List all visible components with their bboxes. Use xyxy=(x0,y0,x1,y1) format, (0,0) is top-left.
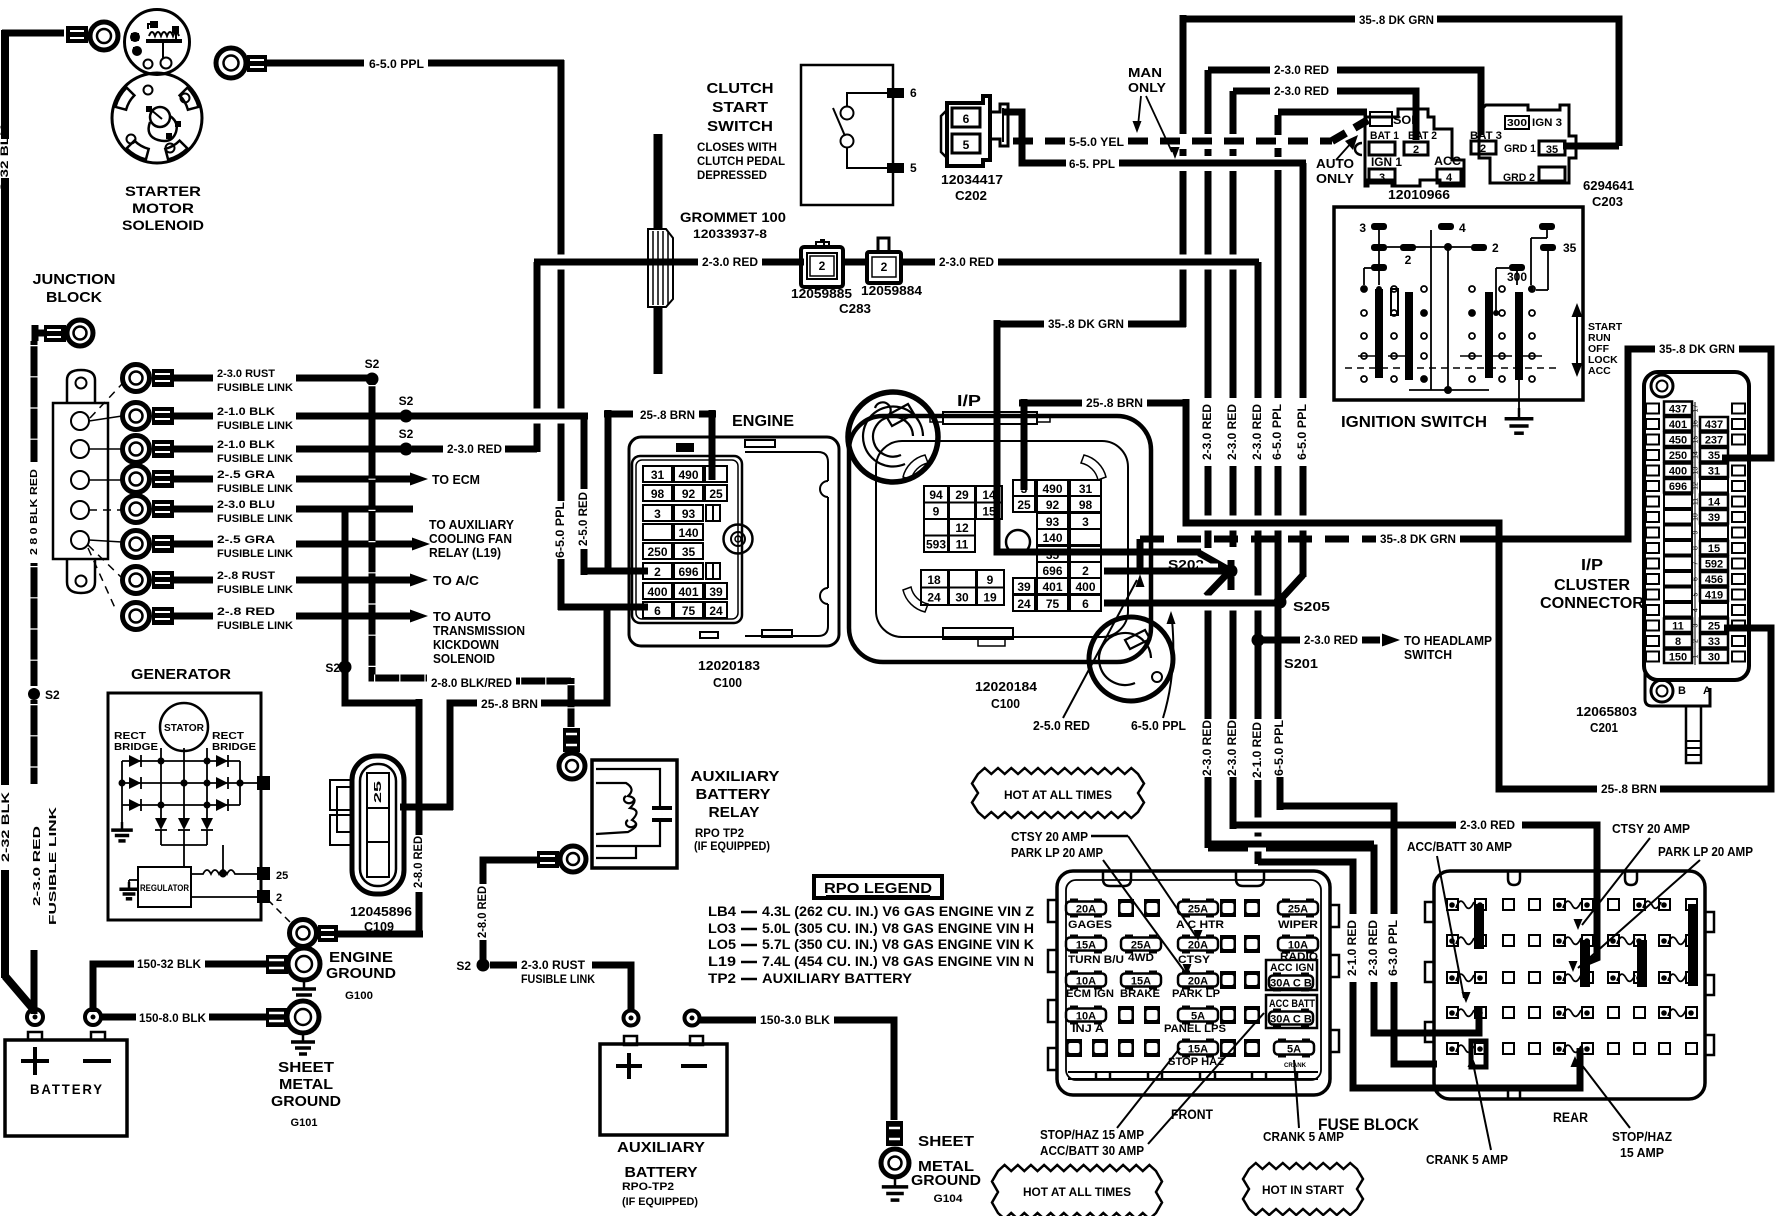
svg-text:593: 593 xyxy=(926,538,946,552)
svg-text:BRIDGE: BRIDGE xyxy=(114,741,158,753)
svg-text:419: 419 xyxy=(1705,590,1723,602)
svg-text:GRD 2: GRD 2 xyxy=(1503,172,1535,184)
solenoid plunger detail xyxy=(150,107,170,127)
wire 2-8.0 BLK/RED hatched xyxy=(374,675,427,682)
wire 6-5.0 PPL horizontal xyxy=(267,60,364,67)
sheet metal ground G104 terminal xyxy=(886,1121,903,1146)
svg-text:2-3.0 RED: 2-3.0 RED xyxy=(31,825,43,906)
svg-text:150: 150 xyxy=(1669,652,1687,664)
svg-text:25: 25 xyxy=(276,870,288,882)
wire 2-3.0 RED through grommet xyxy=(534,259,698,266)
svg-text:6-5.0 PPL: 6-5.0 PPL xyxy=(1295,404,1309,460)
svg-text:BLOCK: BLOCK xyxy=(46,289,102,306)
svg-text:HOT AT ALL TIMES: HOT AT ALL TIMES xyxy=(1004,788,1112,802)
wire from S2 row2 to 2-5.0 RED vertical xyxy=(406,413,588,420)
clutch start switch box xyxy=(801,65,893,205)
C109 left tabs xyxy=(330,780,352,810)
svg-text:ACC: ACC xyxy=(1588,365,1611,377)
solenoid coil symbol xyxy=(149,32,179,36)
wire BRN left stub down xyxy=(605,410,612,571)
wire between connectors xyxy=(843,259,867,266)
svg-text:401: 401 xyxy=(1669,419,1687,431)
wire down to 25-.8 BRN corner xyxy=(345,667,421,703)
ignition switch bottom bus xyxy=(1409,389,1489,391)
svg-text:24: 24 xyxy=(927,591,941,605)
svg-text:16: 16 xyxy=(1693,420,1700,428)
svg-text:450: 450 xyxy=(1669,435,1687,447)
svg-text:2-8.0 RED: 2-8.0 RED xyxy=(411,836,425,888)
connector C203 body xyxy=(1479,105,1576,183)
svg-text:4.3L (262 CU. IN.) V6 GAS ENGI: 4.3L (262 CU. IN.) V6 GAS ENGINE VIN Z xyxy=(762,903,1034,919)
wire DK GRN down into I/P xyxy=(997,320,1201,552)
TO ECM arrow xyxy=(410,473,428,486)
engine pins 400/401/39 xyxy=(643,583,672,599)
regulator ground xyxy=(129,879,138,881)
svg-text:SHEET: SHEET xyxy=(918,1134,974,1150)
svg-text:C201: C201 xyxy=(1590,721,1618,735)
engine pins 3/93/T xyxy=(643,505,672,521)
svg-text:S2: S2 xyxy=(45,688,60,702)
svg-text:6-3.0 PPL: 6-3.0 PPL xyxy=(1386,920,1400,976)
svg-text:6-5.0 PPL: 6-5.0 PPL xyxy=(1131,718,1186,733)
svg-text:696: 696 xyxy=(1042,564,1062,578)
svg-text:456: 456 xyxy=(1705,574,1723,586)
svg-text:LO5: LO5 xyxy=(708,936,736,952)
svg-text:592: 592 xyxy=(1705,559,1723,571)
svg-text:20A: 20A xyxy=(1188,976,1208,988)
svg-text:400: 400 xyxy=(1669,466,1687,478)
junction block dashed links xyxy=(90,384,122,418)
svg-text:2-1.0 BLK: 2-1.0 BLK xyxy=(217,439,275,451)
wire 2-3.0 RED top second xyxy=(1233,88,1270,95)
svg-text:39: 39 xyxy=(709,585,723,599)
engine pins 2/696/T xyxy=(643,563,672,579)
ignition switch box xyxy=(1334,207,1583,400)
svg-text:BRAKE: BRAKE xyxy=(1120,988,1160,1000)
svg-text:JUNCTION: JUNCTION xyxy=(33,271,116,288)
svg-text:FUSIBLE LINK: FUSIBLE LINK xyxy=(217,548,293,560)
svg-text:COOLING FAN: COOLING FAN xyxy=(429,532,512,546)
wire 25-.8 BRN into I/P pin3 xyxy=(1021,399,1028,490)
battery + symbol xyxy=(33,1047,37,1075)
svg-text:15A: 15A xyxy=(1188,1044,1208,1056)
svg-text:L19: L19 xyxy=(708,953,736,969)
svg-text:15: 15 xyxy=(1693,436,1700,444)
regulator box xyxy=(138,867,191,907)
svg-text:CLOSES WITH: CLOSES WITH xyxy=(697,140,777,154)
svg-text:HOT AT ALL TIMES: HOT AT ALL TIMES xyxy=(1023,1185,1131,1199)
C202 pin 6 xyxy=(952,108,980,127)
svg-text:11: 11 xyxy=(956,538,969,552)
svg-text:2: 2 xyxy=(1693,639,1700,643)
svg-text:11: 11 xyxy=(1672,621,1684,633)
svg-text:C283: C283 xyxy=(839,302,871,316)
svg-text:25-.8 BRN: 25-.8 BRN xyxy=(481,697,538,711)
stator circle xyxy=(160,703,208,751)
wire 35-.8 DK GRN label middle xyxy=(995,321,1044,328)
wire 150-3.0 BLK xyxy=(699,1017,756,1024)
svg-text:24: 24 xyxy=(1017,597,1031,611)
svg-text:CONNECTOR: CONNECTOR xyxy=(1540,595,1644,612)
cluster pin rows xyxy=(1646,404,1659,414)
battery terminals xyxy=(27,1009,43,1025)
svg-text:2-8.0 RED: 2-8.0 RED xyxy=(475,886,489,938)
svg-text:25A: 25A xyxy=(1131,940,1151,952)
battery box xyxy=(5,1040,127,1136)
wire 2-3.0 BLU down xyxy=(296,509,345,600)
svg-text:STOP/HAZ 15 AMP: STOP/HAZ 15 AMP xyxy=(1040,1127,1144,1142)
S2 splice on left wire xyxy=(28,688,40,700)
starter motor solenoid lower housing xyxy=(112,73,202,163)
svg-text:2-8.0 BLK/RED: 2-8.0 BLK/RED xyxy=(431,676,512,690)
svg-text:250: 250 xyxy=(1669,450,1687,462)
front fuse block inner line xyxy=(1066,880,1321,1080)
svg-text:RPO LEGEND: RPO LEGEND xyxy=(824,880,932,897)
TO AUXILIARY COOLING FAN RELAY arrow xyxy=(412,538,430,551)
wire 6-5. PPL from C202 xyxy=(1022,141,1066,163)
svg-text:2-3.0 RED: 2-3.0 RED xyxy=(1250,404,1264,460)
grommet 100 wire xyxy=(654,134,663,374)
HOT AT ALL TIMES banner bottom xyxy=(992,1165,1162,1216)
engine pins 98/92/25 xyxy=(643,485,672,501)
svg-text:2-3.0 RED: 2-3.0 RED xyxy=(939,255,994,269)
svg-text:2-1.0 RED: 2-1.0 RED xyxy=(1345,920,1359,976)
svg-text:20A: 20A xyxy=(1076,904,1096,916)
svg-text:25: 25 xyxy=(709,487,723,501)
clutch switch pin 5 xyxy=(887,163,904,173)
svg-text:WIPER: WIPER xyxy=(1278,919,1318,931)
svg-text:25-.8 BRN: 25-.8 BRN xyxy=(1601,782,1657,796)
svg-text:SOL: SOL xyxy=(1393,115,1419,127)
fusible link ring terminal 2-3.0 BLU xyxy=(123,496,150,523)
svg-text:6: 6 xyxy=(1082,597,1089,611)
aux battery + terminal xyxy=(627,1053,631,1079)
svg-text:2-3.0 RED: 2-3.0 RED xyxy=(1304,633,1358,647)
svg-text:FUSIBLE LINK: FUSIBLE LINK xyxy=(217,513,293,525)
fusible link ring terminal 2-.8 RUST xyxy=(123,567,150,594)
rear fuse grid xyxy=(1447,899,1458,910)
svg-text:FUSIBLE LINK: FUSIBLE LINK xyxy=(217,620,293,632)
svg-text:2: 2 xyxy=(881,260,888,274)
I/P left pin grid lower xyxy=(921,570,948,588)
svg-text:2-3.0 RUST: 2-3.0 RUST xyxy=(217,368,275,380)
svg-text:2-.8 RUST: 2-.8 RUST xyxy=(217,570,275,582)
svg-text:S2: S2 xyxy=(399,427,414,441)
wire 25-.8 BRN to cluster xyxy=(1019,400,1082,407)
svg-text:ACC: ACC xyxy=(1434,156,1461,168)
svg-text:C202: C202 xyxy=(955,188,987,203)
wire 2-8.0 RED from relay ring down xyxy=(483,860,537,884)
S2 splice aux battery xyxy=(477,959,490,972)
svg-text:2: 2 xyxy=(819,259,826,273)
svg-text:35: 35 xyxy=(1046,548,1060,562)
C202 pin 5 xyxy=(952,134,980,153)
svg-text:CRANK 5 AMP: CRANK 5 AMP xyxy=(1426,1152,1508,1167)
svg-text:2-3.0 RED: 2-3.0 RED xyxy=(1460,818,1515,832)
svg-text:2-32 BLK: 2-32 BLK xyxy=(0,792,12,862)
svg-text:15A: 15A xyxy=(1076,940,1096,952)
svg-text:1: 1 xyxy=(1693,654,1700,658)
svg-text:150-3.0 BLK: 150-3.0 BLK xyxy=(760,1013,830,1027)
svg-text:CRANK 5 AMP: CRANK 5 AMP xyxy=(1263,1129,1344,1144)
wire 35-.8 DK GRN vertical bus xyxy=(1180,19,1187,134)
svg-text:GROUND: GROUND xyxy=(326,966,396,982)
svg-text:GENERATOR: GENERATOR xyxy=(131,666,231,683)
svg-text:2-3.0 RED: 2-3.0 RED xyxy=(1274,63,1329,77)
svg-text:2-3.0 RED: 2-3.0 RED xyxy=(1225,720,1239,776)
svg-text:4: 4 xyxy=(1459,221,1466,235)
ACC BATT box xyxy=(1266,995,1317,1028)
svg-text:MOTOR: MOTOR xyxy=(132,200,194,216)
svg-text:92: 92 xyxy=(1046,498,1060,512)
svg-text:BAT 1: BAT 1 xyxy=(1370,130,1399,142)
connector C202 12034417 body xyxy=(947,96,990,166)
wire 25-.8 BRN engine stub xyxy=(604,411,633,418)
svg-text:15A: 15A xyxy=(1131,976,1151,988)
I/P bottom slot xyxy=(943,628,1013,639)
svg-text:CTSY 20 AMP: CTSY 20 AMP xyxy=(1011,829,1088,844)
svg-text:GROUND: GROUND xyxy=(911,1173,981,1189)
RPO legend box xyxy=(814,876,942,898)
svg-text:12: 12 xyxy=(1693,482,1700,490)
svg-text:9: 9 xyxy=(933,505,940,519)
svg-text:12020183: 12020183 xyxy=(698,659,760,673)
svg-text:19: 19 xyxy=(983,591,997,605)
svg-text:BATTERY: BATTERY xyxy=(696,787,771,803)
terminal 25 xyxy=(257,867,270,880)
wire ring terminal to 2-8.0 RED vertical xyxy=(338,931,423,938)
svg-text:400: 400 xyxy=(1075,580,1095,594)
svg-text:BATTERY: BATTERY xyxy=(30,1081,104,1097)
svg-text:GROMMET 100: GROMMET 100 xyxy=(680,209,786,225)
svg-text:3: 3 xyxy=(1693,623,1700,627)
svg-text:ACC IGN: ACC IGN xyxy=(1270,962,1314,974)
START RUN OFF LOCK ACC arrow xyxy=(1576,312,1578,368)
svg-text:(IF EQUIPPED): (IF EQUIPPED) xyxy=(694,841,770,853)
ignition switch contact grid circles xyxy=(1361,286,1367,292)
svg-text:ENGINE: ENGINE xyxy=(329,950,393,966)
svg-text:12020184: 12020184 xyxy=(975,680,1037,694)
svg-text:15: 15 xyxy=(1708,543,1720,555)
cluster middle number strip xyxy=(1694,402,1696,665)
svg-text:25: 25 xyxy=(373,780,384,803)
svg-text:FUSIBLE LINK: FUSIBLE LINK xyxy=(217,453,293,465)
svg-text:300: 300 xyxy=(1507,117,1527,129)
splice S205 xyxy=(1274,596,1287,609)
svg-text:3: 3 xyxy=(1021,482,1028,496)
svg-text:I/P: I/P xyxy=(1581,557,1603,574)
svg-text:437: 437 xyxy=(1669,404,1687,416)
C203 300 box + IGN 3 xyxy=(1505,116,1529,129)
svg-text:HOT IN START: HOT IN START xyxy=(1262,1183,1345,1197)
fusible link ring terminal 2-.8 RED xyxy=(123,603,150,630)
svg-text:12034417: 12034417 xyxy=(941,172,1003,187)
wire C109 pin25 to BRN xyxy=(400,804,453,811)
svg-text:75: 75 xyxy=(682,604,696,618)
svg-text:4: 4 xyxy=(1693,608,1700,612)
svg-text:25A: 25A xyxy=(1288,904,1308,916)
wire PPL2 merge diagonal to S205 xyxy=(1281,575,1303,599)
svg-text:10A: 10A xyxy=(1076,976,1096,988)
svg-text:TO AUTO: TO AUTO xyxy=(433,610,491,624)
svg-text:STARTER: STARTER xyxy=(125,183,201,199)
svg-text:75: 75 xyxy=(1046,597,1060,611)
svg-text:12033937-8: 12033937-8 xyxy=(693,227,767,241)
aux battery right terminal xyxy=(685,1011,700,1026)
svg-text:25: 25 xyxy=(1708,621,1720,633)
svg-text:BATTERY: BATTERY xyxy=(625,1165,698,1181)
SOL pin box xyxy=(1370,112,1392,126)
rear fuse thick bars xyxy=(1474,904,1484,949)
svg-text:2: 2 xyxy=(1480,143,1486,155)
svg-text:CLUTCH PEDAL: CLUTCH PEDAL xyxy=(697,154,785,168)
cluster connector body xyxy=(1644,372,1749,680)
svg-text:ACC BATT: ACC BATT xyxy=(1269,998,1315,1010)
wire 2-.8 RUST fusible link xyxy=(174,577,213,584)
svg-text:6-5.0 PPL: 6-5.0 PPL xyxy=(1272,720,1286,776)
svg-text:PARK LP 20 AMP: PARK LP 20 AMP xyxy=(1011,845,1103,860)
svg-text:FUSIBLE LINK: FUSIBLE LINK xyxy=(217,483,293,495)
svg-text:G100: G100 xyxy=(345,990,373,1002)
svg-text:6: 6 xyxy=(654,604,661,618)
engine pins 6/75/24 xyxy=(643,602,672,618)
svg-text:2: 2 xyxy=(654,565,661,579)
wire 2-1.0 BLK fusible link xyxy=(174,413,213,420)
svg-text:696: 696 xyxy=(1669,481,1687,493)
svg-text:GROUND: GROUND xyxy=(271,1094,341,1110)
svg-text:6-5.0 PPL: 6-5.0 PPL xyxy=(369,57,424,71)
TO AUTO TRANSMISSION KICKDOWN SOLENOID arrow xyxy=(410,610,428,623)
svg-text:STATOR: STATOR xyxy=(164,722,204,734)
sheet metal ground ring terminal xyxy=(266,1008,288,1027)
svg-text:2: 2 xyxy=(1082,564,1089,578)
cluster stem xyxy=(1686,706,1701,763)
relay capacitor xyxy=(652,806,672,810)
engine pins 31/490/ xyxy=(643,466,672,482)
fusible link ring terminal 2-1.0 BLK xyxy=(123,403,150,430)
front fuses row1 xyxy=(1070,899,1078,918)
front fuses row3 xyxy=(1070,971,1078,990)
wire 150-32 BLK xyxy=(93,964,134,1012)
svg-text:8: 8 xyxy=(1693,546,1700,550)
svg-text:ONLY: ONLY xyxy=(1316,172,1355,186)
svg-text:TO HEADLAMP: TO HEADLAMP xyxy=(1404,634,1492,648)
C202 crimp xyxy=(990,104,1008,146)
svg-text:FUSIBLE LINK: FUSIBLE LINK xyxy=(217,382,293,394)
svg-text:12059885: 12059885 xyxy=(791,287,852,301)
svg-text:SOLENOID: SOLENOID xyxy=(433,652,495,666)
svg-text:LO3: LO3 xyxy=(708,920,736,936)
auxiliary battery box xyxy=(600,1044,727,1135)
battery - symbol xyxy=(83,1059,111,1063)
svg-text:INJ A: INJ A xyxy=(1072,1023,1104,1035)
svg-text:2-1.0 BLK: 2-1.0 BLK xyxy=(217,406,275,418)
svg-text:25A: 25A xyxy=(1188,904,1208,916)
svg-text:10A: 10A xyxy=(1288,940,1308,952)
grommet 100 symbol xyxy=(648,229,673,307)
svg-text:KICKDOWN: KICKDOWN xyxy=(433,638,499,652)
svg-text:39: 39 xyxy=(1708,512,1720,524)
wire 2-3.0 RUST to S2 xyxy=(296,375,372,382)
svg-text:C100: C100 xyxy=(713,676,742,690)
svg-text:10: 10 xyxy=(1693,513,1700,521)
svg-text:25: 25 xyxy=(1017,498,1031,512)
svg-text:35-.8 DK GRN: 35-.8 DK GRN xyxy=(1048,317,1124,331)
svg-text:6-5.0 PPL: 6-5.0 PPL xyxy=(1270,404,1284,460)
S2 splice top xyxy=(366,373,379,386)
svg-text:TRANSMISSION: TRANSMISSION xyxy=(433,624,525,638)
svg-text:5.0L (305 CU. IN.) V8 GAS ENGI: 5.0L (305 CU. IN.) V8 GAS ENGINE VIN H xyxy=(762,920,1034,936)
fusible link ring terminal 2-.5 GRA xyxy=(123,466,150,493)
svg-text:12: 12 xyxy=(955,521,969,535)
wire 2-3.0 BLU fusible link xyxy=(174,506,213,513)
ignition switch wiper lines xyxy=(1358,355,1380,357)
I/P connector top slot xyxy=(943,412,1037,424)
I/P connector inner body xyxy=(876,441,1128,637)
svg-text:G101: G101 xyxy=(291,1117,318,1129)
field coil xyxy=(191,870,240,874)
svg-text:S2: S2 xyxy=(456,959,471,973)
svg-text:A C HTR: A C HTR xyxy=(1176,919,1224,931)
svg-text:FUSIBLE LINK: FUSIBLE LINK xyxy=(217,420,293,432)
I/P connector outer body xyxy=(849,416,1151,662)
svg-text:5: 5 xyxy=(963,138,970,152)
svg-text:401: 401 xyxy=(1042,580,1062,594)
svg-text:10A: 10A xyxy=(1076,1011,1096,1023)
svg-text:SHEET: SHEET xyxy=(278,1060,334,1076)
ring terminal 6-5.0 PPL at solenoid xyxy=(216,48,246,78)
svg-text:3: 3 xyxy=(654,507,661,521)
wire 35-.8 DK GRN dashed to cluster xyxy=(1140,536,1376,543)
svg-text:401: 401 xyxy=(678,585,698,599)
svg-text:I/P: I/P xyxy=(957,393,981,410)
dashed diagonal to SOL xyxy=(1332,120,1368,141)
I/P lobe bottom-right xyxy=(1089,617,1173,701)
svg-text:7: 7 xyxy=(1693,561,1700,565)
svg-text:6294641: 6294641 xyxy=(1583,178,1634,193)
engine pins /140/None xyxy=(643,524,672,540)
wire PPL to fuse block xyxy=(1280,806,1394,914)
wire RED1 to front fuse area xyxy=(1208,848,1374,914)
svg-text:93: 93 xyxy=(1046,515,1060,529)
svg-text:5A: 5A xyxy=(1191,1011,1205,1023)
svg-text:140: 140 xyxy=(1042,531,1062,545)
svg-text:18: 18 xyxy=(927,573,941,587)
wire 2-.8 RED fusible link xyxy=(174,613,213,620)
svg-text:31: 31 xyxy=(651,468,665,482)
wire BRN into pin31 xyxy=(709,410,716,480)
front fuse block side notches xyxy=(1048,900,1057,922)
wire to solenoid ring terminal xyxy=(5,30,64,37)
wire 2-1.0 BLK row3 to S2 and 2-3.0 RED xyxy=(296,446,406,453)
svg-text:S205: S205 xyxy=(1293,599,1330,614)
svg-text:98: 98 xyxy=(1079,498,1093,512)
wire 5-5.0 YEL dashed from C202 xyxy=(1004,112,1022,141)
svg-text:G104: G104 xyxy=(934,1193,964,1205)
dashed link to ring terminal xyxy=(268,900,293,925)
svg-text:5: 5 xyxy=(910,161,917,175)
svg-text:AUXILIARY: AUXILIARY xyxy=(691,769,780,785)
wire pin35 diagonal to S202 xyxy=(1199,553,1229,570)
svg-text:BRIDGE: BRIDGE xyxy=(212,741,256,753)
svg-text:A: A xyxy=(1703,685,1711,697)
svg-text:39: 39 xyxy=(1017,580,1031,594)
TO A/C arrow xyxy=(410,574,428,587)
svg-text:30: 30 xyxy=(955,591,969,605)
svg-text:FUSIBLE LINK: FUSIBLE LINK xyxy=(47,806,59,925)
svg-text:2 8 0 BLK RED: 2 8 0 BLK RED xyxy=(28,469,40,555)
svg-text:12010966: 12010966 xyxy=(1388,187,1450,202)
